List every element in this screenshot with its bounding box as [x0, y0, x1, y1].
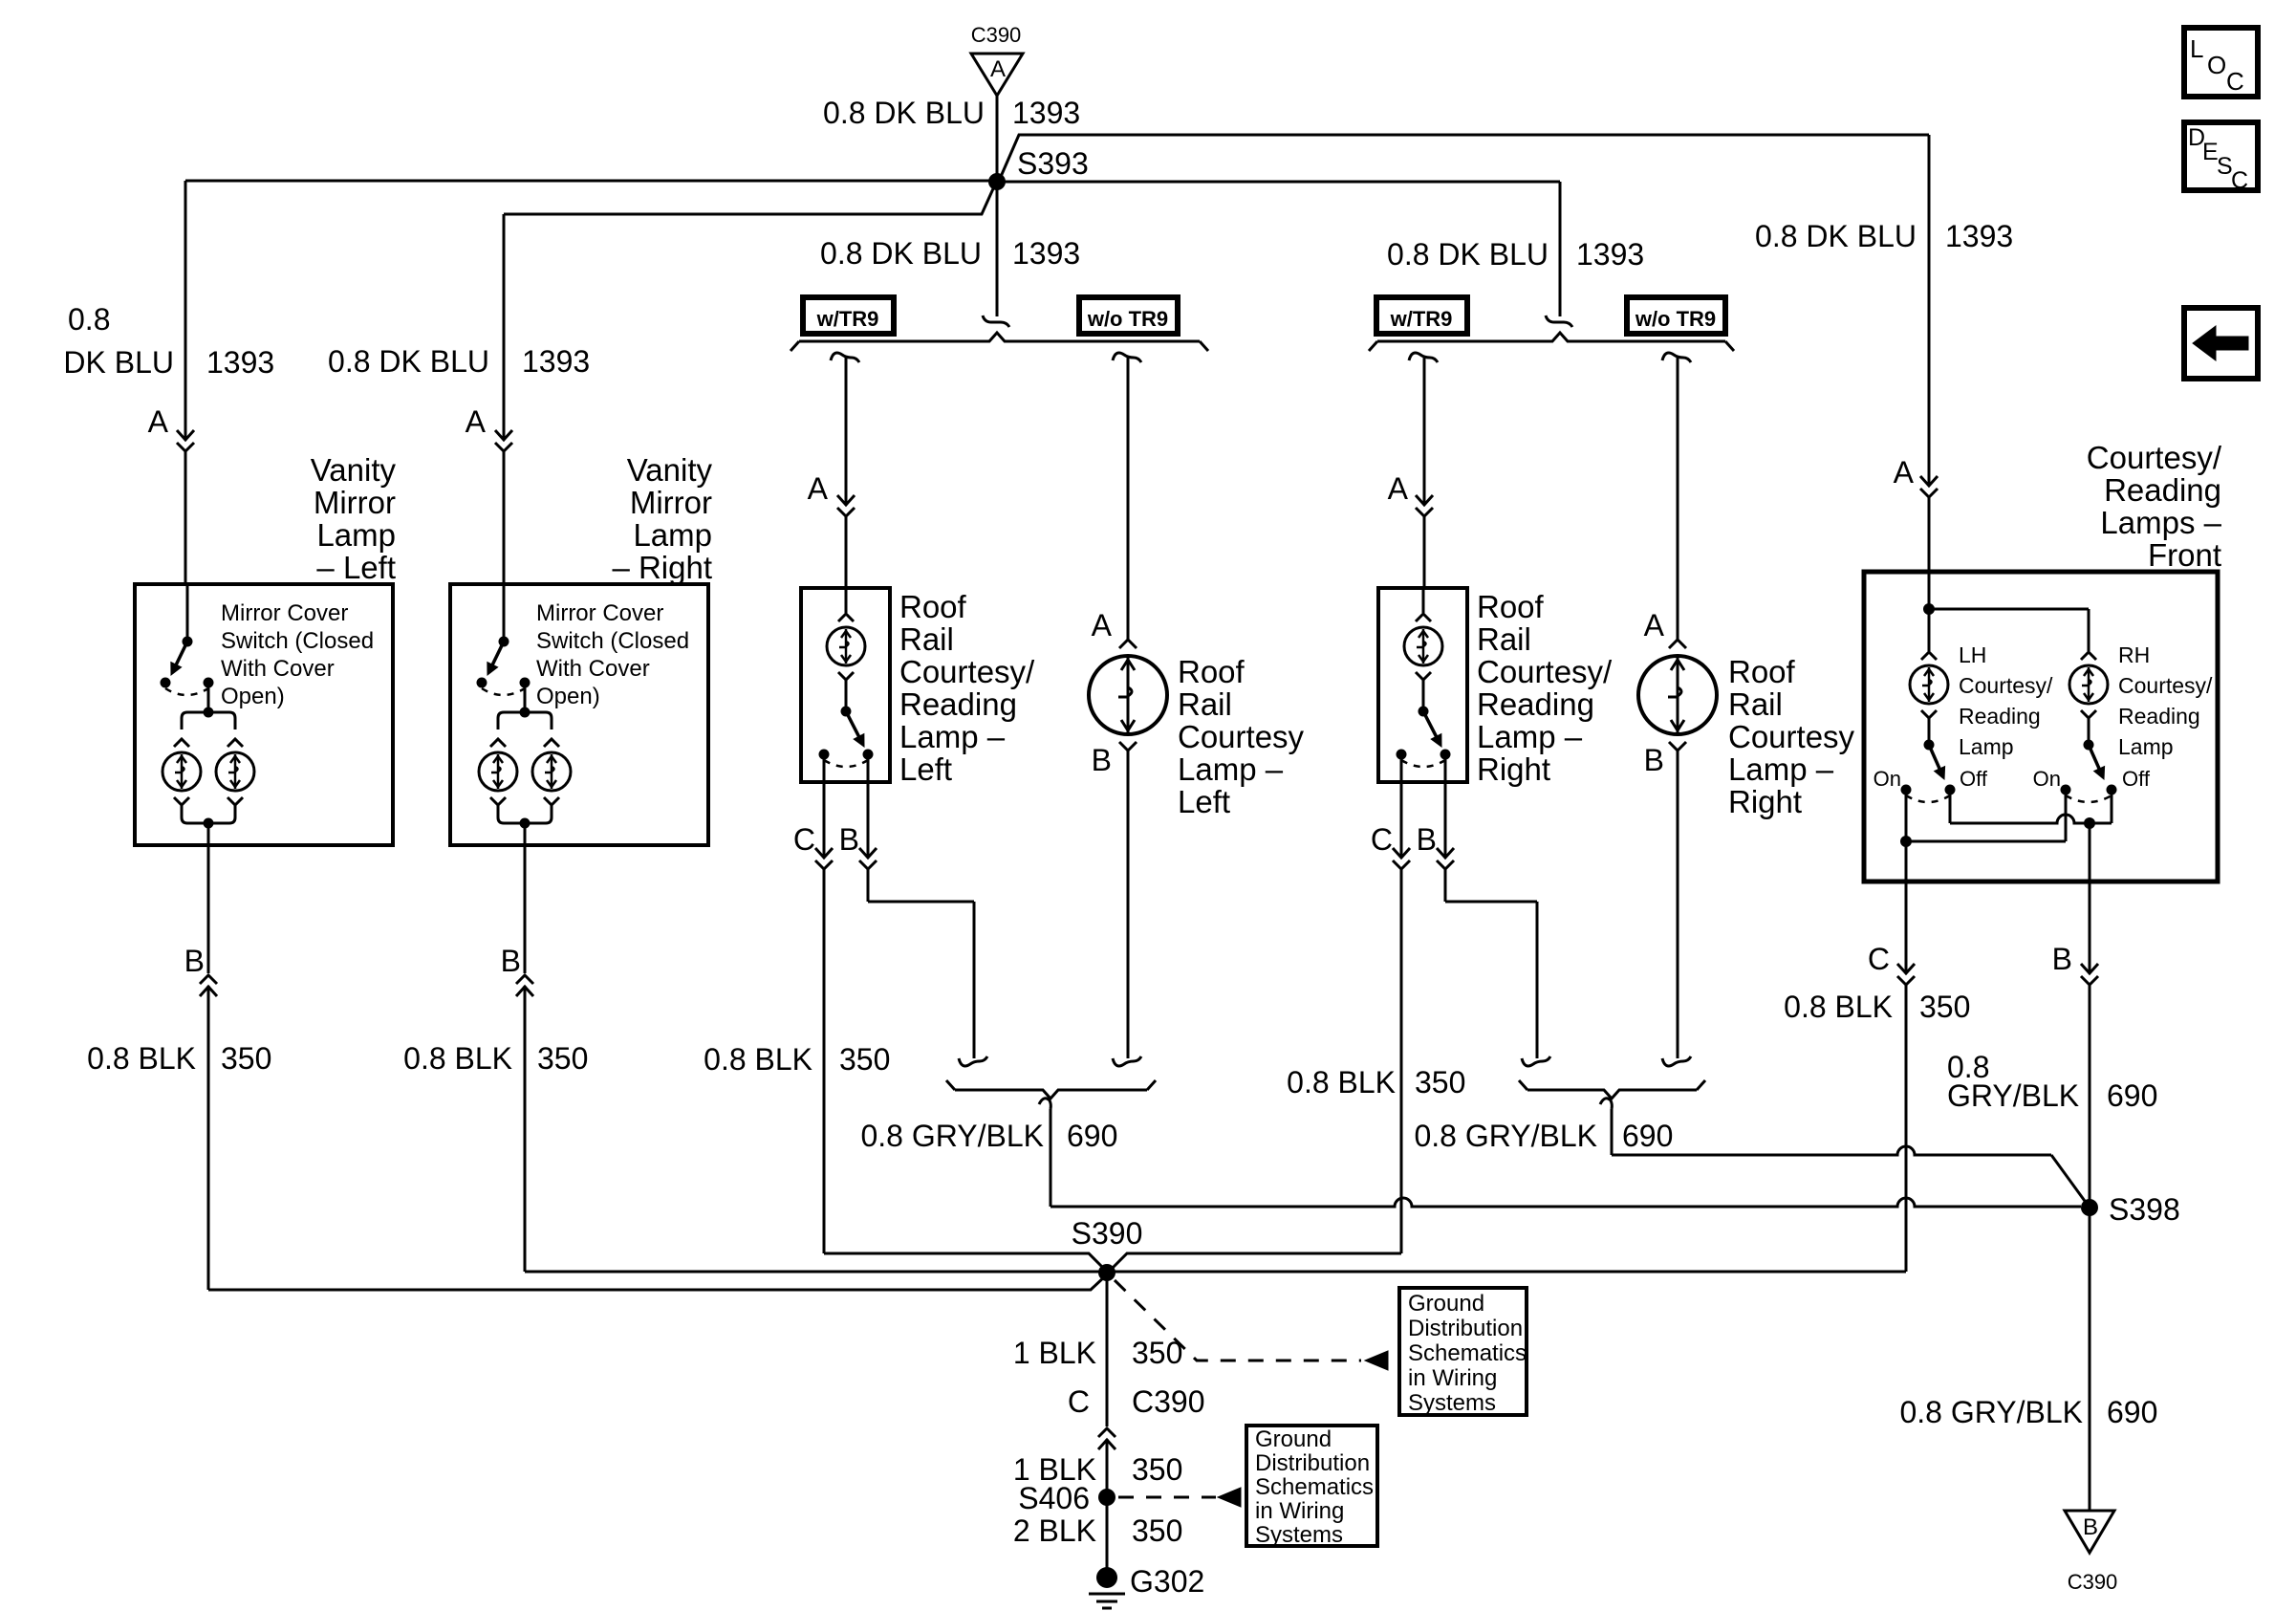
- svg-text:On: On: [2033, 767, 2061, 791]
- svg-text:O: O: [2207, 51, 2226, 79]
- pin B connector left vanity: [207, 845, 210, 973]
- svg-text:A: A: [1388, 471, 1409, 506]
- svg-text:1393: 1393: [206, 345, 274, 380]
- svg-text:Left: Left: [899, 751, 952, 787]
- svg-text:0.8 GRY/BLK: 0.8 GRY/BLK: [1899, 1395, 2083, 1429]
- splice S406: [1098, 1489, 1116, 1506]
- svg-text:Reading: Reading: [2118, 704, 2200, 729]
- svg-text:0.8 BLK: 0.8 BLK: [1784, 990, 1893, 1024]
- wire front lamps C to S390: [1905, 985, 1908, 1272]
- svg-text:Courtesy/: Courtesy/: [2118, 673, 2213, 698]
- svg-text:Lamp: Lamp: [316, 517, 396, 553]
- svg-text:A: A: [808, 471, 829, 506]
- svg-text:Courtesy/: Courtesy/: [1477, 654, 1613, 689]
- svg-text:Courtesy/: Courtesy/: [1959, 673, 2053, 698]
- svg-text:Courtesy/: Courtesy/: [899, 654, 1035, 689]
- svg-text:0.8 GRY/BLK: 0.8 GRY/BLK: [1414, 1119, 1597, 1153]
- svg-text:1393: 1393: [1576, 237, 1644, 272]
- svg-text:in Wiring: in Wiring: [1255, 1498, 1344, 1524]
- svg-text:Reading: Reading: [2104, 472, 2221, 508]
- svg-text:350: 350: [221, 1041, 271, 1076]
- wire S393 to front lamps: [1000, 135, 1929, 179]
- svg-text:1393: 1393: [522, 344, 590, 379]
- svg-text:Right: Right: [1477, 751, 1550, 787]
- svg-text:Open): Open): [536, 684, 600, 709]
- pin B connector right vanity: [524, 845, 527, 973]
- svg-text:Lamp –: Lamp –: [1477, 719, 1583, 754]
- svg-text:0.8 DK BLU: 0.8 DK BLU: [328, 344, 489, 379]
- connector C390 triangle A: [971, 54, 1023, 96]
- svg-text:S393: S393: [1017, 146, 1089, 181]
- svg-text:B: B: [2083, 1514, 2098, 1540]
- svg-text:Roof: Roof: [1477, 589, 1545, 624]
- svg-text:A: A: [1644, 608, 1665, 642]
- component box Vanity Mirror Lamp Right: [450, 584, 708, 845]
- svg-text:Left: Left: [1178, 784, 1230, 819]
- svg-text:Schematics: Schematics: [1255, 1474, 1374, 1500]
- svg-text:Reading: Reading: [1477, 686, 1594, 722]
- wire S393 down to left roof group: [996, 182, 999, 316]
- wire S390 to ground: [1106, 1273, 1109, 1426]
- lamp LH courtesy reading: [1928, 613, 1931, 651]
- svg-text:Front: Front: [2148, 537, 2221, 573]
- svg-text:C390: C390: [1132, 1384, 1205, 1419]
- svg-text:Rail: Rail: [1728, 686, 1783, 722]
- svg-text:DK BLU: DK BLU: [63, 345, 174, 380]
- splice S390: [1098, 1264, 1116, 1281]
- svg-text:690: 690: [1622, 1119, 1673, 1153]
- svg-text:A: A: [148, 404, 169, 439]
- wire roof rail right B to option brace: [1444, 869, 1447, 902]
- svg-text:350: 350: [537, 1041, 588, 1076]
- wire S406 to G302: [1106, 1497, 1109, 1578]
- svg-text:0.8 BLK: 0.8 BLK: [704, 1042, 812, 1077]
- legend box LOC: [2184, 28, 2258, 97]
- svg-text:A: A: [990, 56, 1006, 82]
- lamp RH courtesy reading: [2088, 613, 2090, 651]
- legend box DESC: [2184, 122, 2258, 190]
- svg-text:Distribution: Distribution: [1408, 1316, 1523, 1341]
- svg-text:w/TR9: w/TR9: [816, 307, 879, 331]
- wire roof rail right C to S390: [1400, 869, 1403, 1253]
- pin C connector front lamps: [1905, 841, 1908, 973]
- svg-text:350: 350: [1132, 1452, 1182, 1487]
- svg-text:LH: LH: [1959, 642, 1986, 667]
- svg-text:– Right: – Right: [612, 550, 712, 585]
- wire right group ground to S398: [1611, 1109, 1614, 1155]
- splice S393: [988, 173, 1006, 190]
- front box On bus wiring: [1905, 790, 1908, 841]
- front lamps internal feed: [1928, 572, 1931, 613]
- svg-text:w/o TR9: w/o TR9: [1635, 307, 1716, 331]
- svg-text:B: B: [501, 944, 521, 978]
- svg-text:C: C: [2226, 67, 2244, 96]
- svg-text:2 BLK: 2 BLK: [1013, 1513, 1096, 1548]
- svg-text:S406: S406: [1018, 1481, 1090, 1515]
- svg-text:On: On: [1874, 767, 1901, 791]
- svg-text:With Cover: With Cover: [221, 656, 335, 682]
- svg-text:C390: C390: [971, 23, 1022, 47]
- wire S398 to C390 B: [2089, 1208, 2091, 1511]
- svg-text:0.8 BLK: 0.8 BLK: [1287, 1065, 1396, 1099]
- svg-text:With Cover: With Cover: [536, 656, 650, 682]
- svg-text:0.8 GRY/BLK: 0.8 GRY/BLK: [860, 1119, 1044, 1153]
- label 1 BLK 350 lower: [1106, 1439, 1109, 1497]
- svg-text:A: A: [1894, 455, 1915, 490]
- svg-text:1393: 1393: [1945, 219, 2013, 253]
- svg-text:0.8 DK BLU: 0.8 DK BLU: [1755, 219, 1917, 253]
- svg-text:690: 690: [2107, 1078, 2157, 1113]
- switch LH courtesy: [1928, 718, 1931, 745]
- svg-text:0.8 DK BLU: 0.8 DK BLU: [820, 236, 982, 271]
- svg-text:Reading: Reading: [1959, 704, 2041, 729]
- wire roof rail left B to option brace: [867, 869, 870, 902]
- svg-text:Open): Open): [221, 684, 285, 709]
- svg-text:0.8 DK BLU: 0.8 DK BLU: [1387, 237, 1549, 272]
- svg-text:Reading: Reading: [899, 686, 1017, 722]
- svg-text:Roof: Roof: [1178, 654, 1245, 689]
- svg-text:G302: G302: [1130, 1564, 1204, 1599]
- svg-text:Switch (Closed: Switch (Closed: [221, 628, 374, 654]
- svg-text:S390: S390: [1072, 1216, 1143, 1251]
- svg-text:Mirror Cover: Mirror Cover: [536, 600, 663, 626]
- svg-text:Switch (Closed: Switch (Closed: [536, 628, 689, 654]
- svg-text:Mirror: Mirror: [630, 485, 712, 520]
- component box Vanity Mirror Lamp Left: [135, 584, 393, 845]
- option box woTR9 right: [1627, 297, 1725, 334]
- svg-text:Lamp: Lamp: [633, 517, 712, 553]
- svg-text:350: 350: [1132, 1513, 1182, 1548]
- svg-text:Roof: Roof: [1728, 654, 1796, 689]
- svg-text:0.8 BLK: 0.8 BLK: [403, 1041, 512, 1076]
- wire S393 to right vanity lamp: [504, 185, 995, 214]
- option brace left group bottom: [955, 1090, 1147, 1099]
- wire S393 to right roof group: [997, 181, 1560, 184]
- svg-text:690: 690: [2107, 1395, 2157, 1429]
- component box Courtesy Reading Lamps Front: [1864, 572, 2218, 882]
- wire woTR9 branch right: [1662, 353, 1691, 362]
- svg-text:B: B: [2052, 942, 2072, 976]
- component box Roof Rail Courtesy Reading Lamp Left: [801, 588, 890, 782]
- svg-text:Lamps –: Lamps –: [2100, 505, 2221, 540]
- svg-text:Ground: Ground: [1408, 1291, 1484, 1317]
- splice S398: [2081, 1199, 2098, 1216]
- option box wTR9 left: [803, 297, 894, 334]
- connector C390 triangle B: [2065, 1511, 2114, 1553]
- lamp Roof Rail Courtesy Lamp Right: [1669, 640, 1686, 648]
- svg-text:Vanity: Vanity: [311, 452, 397, 488]
- reference box ground distribution 1: [1399, 1288, 1527, 1415]
- svg-text:Mirror Cover: Mirror Cover: [221, 600, 348, 626]
- svg-text:B: B: [1417, 822, 1437, 857]
- switch RH courtesy: [2088, 718, 2090, 745]
- svg-text:Right: Right: [1728, 784, 1802, 819]
- svg-text:C: C: [1868, 942, 1890, 976]
- lamp Roof Rail Courtesy Lamp Left: [1119, 640, 1137, 648]
- svg-text:A: A: [1092, 608, 1113, 642]
- reference box ground distribution 2: [1246, 1426, 1377, 1546]
- svg-text:Courtesy: Courtesy: [1728, 719, 1855, 754]
- svg-text:Lamp: Lamp: [1959, 734, 2014, 759]
- svg-text:– Left: – Left: [316, 550, 396, 585]
- ground G302: [1096, 1567, 1117, 1588]
- component box Roof Rail Courtesy Reading Lamp Right: [1378, 588, 1467, 782]
- svg-text:w/o TR9: w/o TR9: [1087, 307, 1168, 331]
- option brace right group: [1546, 316, 1572, 327]
- svg-text:Systems: Systems: [1255, 1522, 1343, 1548]
- svg-text:1393: 1393: [1012, 96, 1080, 130]
- option box wTR9 right: [1376, 297, 1467, 334]
- wire roof courtesy lamp left B to option brace: [1127, 751, 1130, 1058]
- wire roof rail left C to S390: [823, 869, 826, 1253]
- wire roof courtesy lamp right B to option brace: [1677, 751, 1679, 1058]
- svg-text:Systems: Systems: [1408, 1390, 1496, 1416]
- wire front lamps B to S398: [2089, 985, 2091, 1208]
- svg-text:Vanity: Vanity: [627, 452, 713, 488]
- reference dashed S390 ground distribution: [1115, 1280, 1361, 1361]
- svg-text:A: A: [466, 404, 487, 439]
- svg-text:Lamp –: Lamp –: [899, 719, 1006, 754]
- wire C390 to S393 feed: [996, 96, 999, 182]
- svg-text:C: C: [793, 822, 815, 857]
- svg-text:L: L: [2190, 34, 2203, 63]
- svg-text:Courtesy: Courtesy: [1178, 719, 1305, 754]
- svg-text:Rail: Rail: [1178, 686, 1232, 722]
- wire right vanity B to S390 and front lamps C: [524, 986, 527, 1272]
- svg-text:S398: S398: [2109, 1192, 2180, 1227]
- reference dashed S406 ground distribution: [1118, 1496, 1216, 1499]
- svg-text:C: C: [2231, 167, 2248, 194]
- option box woTR9 left: [1079, 297, 1178, 334]
- front box Off bus wiring: [1949, 790, 1952, 823]
- svg-text:350: 350: [1132, 1336, 1182, 1370]
- option brace left group: [983, 316, 1009, 327]
- svg-text:in Wiring: in Wiring: [1408, 1365, 1497, 1391]
- wire left group ground to S398: [1050, 1109, 1052, 1207]
- wire S393 to left vanity lamp: [185, 180, 997, 183]
- legend box back arrow: [2184, 308, 2258, 379]
- svg-text:Rail: Rail: [899, 621, 954, 657]
- pin B connector front lamps: [2089, 823, 2091, 973]
- svg-text:Off: Off: [2122, 767, 2151, 791]
- wire left vanity B to S390: [207, 986, 210, 1290]
- svg-text:B: B: [1092, 743, 1112, 777]
- svg-text:0.8: 0.8: [68, 302, 110, 337]
- svg-text:Lamp: Lamp: [2118, 734, 2174, 759]
- svg-text:Mirror: Mirror: [314, 485, 396, 520]
- svg-text:1 BLK: 1 BLK: [1013, 1336, 1096, 1370]
- svg-text:Off: Off: [1960, 767, 1988, 791]
- svg-text:B: B: [1644, 743, 1664, 777]
- svg-text:C390: C390: [2068, 1570, 2118, 1594]
- svg-text:Courtesy/: Courtesy/: [2087, 440, 2222, 475]
- svg-text:350: 350: [839, 1042, 890, 1077]
- svg-text:Roof: Roof: [899, 589, 967, 624]
- svg-text:Lamp –: Lamp –: [1728, 751, 1834, 787]
- svg-text:350: 350: [1919, 990, 1970, 1024]
- svg-text:350: 350: [1415, 1065, 1465, 1099]
- svg-text:Lamp –: Lamp –: [1178, 751, 1284, 787]
- svg-text:Ground: Ground: [1255, 1426, 1332, 1452]
- svg-text:w/TR9: w/TR9: [1390, 307, 1453, 331]
- svg-text:B: B: [839, 822, 859, 857]
- wire wTR9 branch left: [831, 353, 859, 362]
- svg-text:Schematics: Schematics: [1408, 1340, 1527, 1366]
- svg-text:GRY/BLK: GRY/BLK: [1947, 1078, 2079, 1113]
- svg-text:1393: 1393: [1012, 236, 1080, 271]
- svg-text:Rail: Rail: [1477, 621, 1531, 657]
- svg-text:690: 690: [1067, 1119, 1117, 1153]
- wire woTR9 branch left: [1113, 353, 1141, 362]
- svg-text:C: C: [1068, 1384, 1090, 1419]
- svg-text:0.8 BLK: 0.8 BLK: [87, 1041, 196, 1076]
- wire wTR9 branch right: [1409, 353, 1438, 362]
- svg-text:C: C: [1371, 822, 1393, 857]
- svg-text:B: B: [184, 944, 205, 978]
- svg-text:0.8 DK BLU: 0.8 DK BLU: [823, 96, 985, 130]
- option brace right group bottom: [1527, 1090, 1697, 1099]
- svg-text:Distribution: Distribution: [1255, 1450, 1370, 1476]
- svg-text:RH: RH: [2118, 642, 2150, 667]
